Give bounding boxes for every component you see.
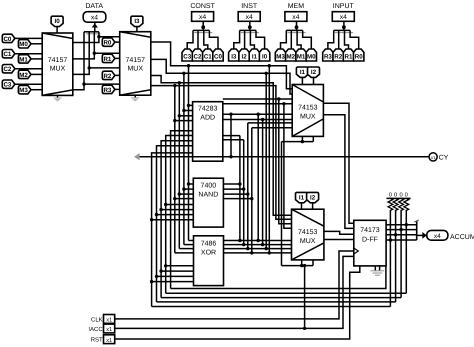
svg-text:C2: C2	[3, 66, 11, 73]
wire corridor row2	[161, 297, 401, 299]
wire U2 out1 B2	[151, 59, 292, 94]
wire bus-a bit0 left vertical	[171, 131, 193, 289]
wire CY line	[134, 153, 429, 160]
svg-text:R0: R0	[355, 53, 363, 60]
ground under U2	[131, 95, 139, 100]
input tag R2	[102, 71, 115, 80]
wire U8 q2	[386, 234, 417, 236]
svg-text:x4: x4	[91, 15, 98, 22]
wire U1 out0 to U2	[73, 37, 120, 43]
svg-text:0: 0	[399, 192, 402, 199]
svg-text:74157: 74157	[48, 57, 68, 64]
wire CLK to U8 clock	[115, 251, 354, 319]
wire XOR out3	[224, 252, 292, 254]
wire bus-b bit2 vertical	[178, 83, 194, 249]
wire DATA bit3 vertical	[82, 32, 85, 86]
svg-text:CY: CY	[439, 155, 449, 162]
wire I1 to U6	[301, 77, 303, 84]
ground under U8	[371, 266, 385, 275]
wire U2 out2 B3	[151, 72, 292, 251]
input tag M2	[18, 70, 31, 79]
flip-flop U8 74173	[354, 220, 386, 266]
wire NAND out1 vertical	[223, 140, 246, 247]
input port !ACC	[88, 324, 114, 333]
svg-text:NAND: NAND	[198, 192, 218, 199]
wire U8 q1	[386, 229, 417, 231]
wire M0 to U1	[31, 43, 42, 45]
bus mark DATA	[86, 33, 101, 35]
wire U8 q3	[386, 239, 417, 241]
mux U2 74157	[120, 32, 151, 95]
wire ACCUM collector	[414, 220, 422, 240]
wire NAND out2 to U6	[223, 123, 292, 250]
input port CLK	[91, 315, 115, 324]
wire U7 strobe	[282, 260, 314, 267]
input tag C2	[2, 65, 15, 74]
svg-text:MUX: MUX	[50, 66, 66, 73]
svg-text:74173: 74173	[360, 227, 380, 234]
wire acc bit1 vertical	[399, 210, 402, 298]
wire U7 out0 to U8	[324, 231, 354, 234]
svg-text:RST: RST	[91, 337, 103, 344]
input port group CONST x4	[182, 3, 223, 61]
svg-text:R1: R1	[345, 53, 353, 60]
svg-text:x4: x4	[292, 14, 299, 21]
select tag I1 of U7	[296, 192, 308, 202]
wire U8 q0	[386, 224, 417, 226]
svg-text:MEM: MEM	[288, 3, 305, 10]
svg-text:x4: x4	[434, 233, 441, 240]
svg-text:I2: I2	[242, 53, 248, 60]
svg-text:I1: I1	[299, 194, 305, 201]
svg-text:CONST: CONST	[190, 3, 215, 10]
svg-text:R3: R3	[324, 53, 332, 60]
wire acc bit2 vertical	[394, 210, 397, 302]
junction B1-vb	[187, 64, 190, 67]
input tag R3	[102, 85, 115, 94]
svg-text:I0: I0	[262, 53, 268, 60]
svg-text:MUX: MUX	[300, 114, 316, 121]
wire R3 to U2	[115, 88, 120, 90]
wire R1 to U2	[115, 57, 120, 59]
svg-text:x4: x4	[246, 14, 253, 21]
svg-text:ACCUM: ACCUM	[450, 234, 474, 241]
select tag I2 of U6	[308, 67, 320, 77]
wire I2 to U7	[312, 203, 314, 209]
svg-text:x1: x1	[106, 318, 112, 324]
input port RST	[91, 335, 115, 344]
svg-text:7486: 7486	[201, 241, 217, 248]
wire I3 select to U2	[136, 27, 138, 32]
wire U2 out0 B1	[151, 42, 292, 89]
svg-text:M3: M3	[19, 87, 28, 94]
wire I2 to U6	[313, 77, 315, 84]
svg-text:74153: 74153	[298, 229, 318, 236]
svg-text:7400: 7400	[201, 183, 217, 190]
wire C1 to U1	[15, 53, 42, 55]
wire acc bit3 vertical	[389, 210, 392, 307]
mux U1 74157	[42, 33, 73, 95]
svg-text:x1: x1	[106, 327, 112, 333]
wire DATA bit0 vertical	[97, 32, 100, 39]
svg-text:I3: I3	[134, 18, 140, 25]
svg-text:C0: C0	[3, 36, 11, 43]
wire XOR out2	[224, 248, 292, 250]
wire U1 out2 to U2	[73, 68, 120, 75]
input tag C3	[2, 80, 15, 89]
input tag R1	[102, 54, 115, 63]
svg-text:R1: R1	[103, 56, 111, 63]
wire bus-a bit3 left vertical	[155, 146, 194, 302]
input tag M1	[18, 55, 31, 64]
output port CY	[429, 153, 449, 162]
wire M1 to U1	[31, 58, 42, 60]
wire DATA bit1 vertical	[93, 32, 96, 55]
wire bus-b bit3 vertical	[173, 86, 193, 253]
svg-text:R2: R2	[103, 73, 111, 80]
svg-text:C3: C3	[3, 82, 11, 89]
wire NAND out3 to U6	[223, 128, 292, 255]
svg-text:CLK: CLK	[91, 316, 103, 323]
wire U1 out3 to U2	[73, 84, 120, 90]
svg-text:INPUT: INPUT	[333, 3, 355, 10]
wire bus-b bit1 vertical	[182, 73, 193, 244]
wire U6 out0 to U8	[323, 103, 353, 223]
svg-text:x1: x1	[106, 338, 112, 344]
svg-text:I1: I1	[300, 69, 306, 76]
wire ADD out0 to U6 and U7	[223, 97, 292, 224]
svg-text:74157: 74157	[126, 57, 146, 64]
select tag I1 of U6	[296, 67, 308, 77]
svg-text:x4: x4	[340, 14, 347, 21]
wire corridor row4	[152, 306, 391, 308]
wire U6 out1 to U8	[323, 115, 353, 229]
select tag I0	[51, 16, 63, 26]
xor U5 7486	[194, 236, 224, 286]
wire XOR out1	[224, 244, 292, 246]
svg-text:0: 0	[394, 192, 397, 199]
wire DATA stem	[92, 22, 98, 32]
input tag M3	[18, 86, 31, 95]
svg-text:x1: x1	[431, 155, 436, 160]
svg-text:C0: C0	[214, 53, 222, 60]
output port ACCUM x4	[422, 230, 474, 240]
svg-text:M0: M0	[19, 41, 28, 48]
wire bus-a bit2 left vertical	[159, 141, 193, 298]
wire ADD out2 to U6 and CY	[223, 113, 292, 243]
wire corridor row1	[166, 292, 407, 294]
wire U7 out1 to U8	[324, 239, 354, 241]
resistors R 0-3	[388, 198, 409, 210]
svg-text:I2: I2	[311, 69, 317, 76]
wire ADD out3 to U6	[223, 118, 292, 247]
wire strobe tie U6-U7	[281, 142, 283, 266]
wire RST to U8 reset	[115, 266, 360, 339]
adder U3 74283	[193, 102, 223, 162]
svg-text:R0: R0	[103, 40, 111, 47]
nand U4 7400	[193, 178, 223, 227]
select tag I2 of U7	[307, 192, 319, 202]
wire corridor row0	[171, 266, 386, 288]
wire I1 to U7	[301, 203, 303, 209]
svg-text:DATA: DATA	[85, 3, 103, 10]
wire corridor row3	[157, 301, 396, 303]
input tag R0	[102, 38, 115, 47]
svg-text:I1: I1	[252, 53, 258, 60]
mux U6 74153	[292, 85, 323, 137]
svg-text:I3: I3	[231, 53, 237, 60]
input port group INST x4	[229, 3, 270, 61]
input tag M0	[18, 40, 31, 49]
junction B2-vc	[182, 72, 185, 75]
wire bus-b bit0 vertical	[187, 66, 194, 241]
wire bus-a bit1 left vertical	[164, 136, 194, 294]
resistor rail	[387, 192, 411, 199]
svg-text:M2: M2	[286, 53, 295, 60]
svg-text:MUX: MUX	[127, 66, 143, 73]
svg-text:ADD: ADD	[200, 115, 215, 122]
wire R2 to U2	[115, 74, 120, 76]
svg-text:74153: 74153	[298, 105, 318, 112]
wire U1 out1 to U2	[73, 53, 120, 59]
svg-text:M1: M1	[19, 56, 28, 63]
wire U6 strobe	[282, 136, 314, 143]
svg-text:C3: C3	[183, 53, 191, 60]
svg-text:MUX: MUX	[300, 238, 316, 245]
mux U7 74153	[292, 209, 324, 260]
wire IACC to U8 enable	[115, 256, 354, 328]
svg-text:C1: C1	[3, 51, 11, 58]
svg-text:74283: 74283	[198, 106, 218, 113]
wire ADD out1 to U6 and U7	[223, 102, 292, 228]
svg-text:I2: I2	[310, 194, 316, 201]
wire C0 to U1	[15, 37, 42, 39]
wire C3 to U1	[15, 83, 42, 85]
wire strobe vertical to IACC	[303, 264, 306, 330]
svg-text:M0: M0	[307, 53, 316, 60]
svg-text:R3: R3	[103, 87, 111, 94]
wire I0 select to U1	[56, 27, 58, 33]
ground under U1	[53, 95, 61, 100]
svg-text:C2: C2	[194, 53, 202, 60]
input tag C0	[2, 34, 15, 43]
wire acc bit0 vertical	[405, 210, 408, 293]
wire U2 out3 B4	[151, 64, 292, 255]
svg-text:I0: I0	[55, 18, 61, 25]
junction B4-ve	[173, 84, 176, 87]
wire XOR out0	[224, 240, 292, 242]
svg-text:R2: R2	[334, 53, 342, 60]
output port DATA x4	[83, 3, 106, 22]
wire M2 to U1	[31, 73, 42, 75]
wire R0 to U2	[115, 41, 120, 43]
svg-text:x4: x4	[199, 14, 206, 21]
select tag I3	[131, 16, 143, 26]
svg-text:!ACC: !ACC	[88, 326, 103, 333]
junction B3-vd	[178, 81, 181, 84]
svg-text:0: 0	[405, 192, 408, 199]
wire NAND out0 vertical	[223, 136, 242, 243]
wire DATA bar	[84, 31, 99, 33]
svg-text:M1: M1	[297, 53, 306, 60]
svg-text:M2: M2	[19, 72, 28, 79]
wire C2 to U1	[15, 68, 42, 70]
svg-text:C1: C1	[204, 53, 212, 60]
wire bus-a bit4 left vertical	[150, 153, 194, 307]
input tag C1	[2, 50, 15, 59]
svg-text:XOR: XOR	[201, 250, 216, 257]
svg-text:D-FF: D-FF	[362, 237, 378, 244]
wire M3 to U1	[31, 89, 42, 91]
input port group INPUT x4	[323, 3, 364, 61]
wire DATA bit2 vertical	[88, 32, 91, 70]
svg-text:0: 0	[389, 192, 392, 199]
input port group MEM x4	[275, 3, 316, 61]
svg-text:M3: M3	[276, 53, 285, 60]
svg-text:INST: INST	[241, 3, 258, 10]
